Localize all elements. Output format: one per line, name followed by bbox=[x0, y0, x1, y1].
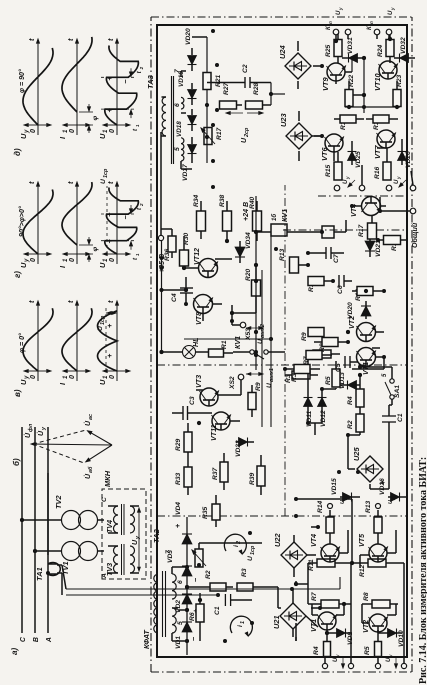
current transformer TA1 bbox=[35, 563, 60, 582]
resistor R4b bbox=[347, 381, 364, 407]
svg-text:А: А bbox=[46, 637, 53, 643]
diode VD3 bbox=[167, 550, 200, 582]
transistor VT4 bbox=[310, 534, 340, 562]
svg-text:R9: R9 bbox=[255, 382, 262, 391]
svg-text:5: 5 bbox=[174, 147, 181, 151]
voltage transformer TV2 bbox=[20, 495, 104, 530]
terminal X53 Uvyh2 bbox=[232, 305, 266, 344]
transistor VT4b bbox=[350, 197, 381, 218]
svg-text:R35: R35 bbox=[202, 506, 209, 519]
svg-text:R39: R39 bbox=[249, 472, 256, 485]
svg-text:R27: R27 bbox=[223, 82, 230, 95]
svg-text:C1: C1 bbox=[397, 413, 404, 422]
svg-text:1: 1 bbox=[135, 124, 140, 127]
resistor R5 vertical bbox=[364, 630, 382, 657]
svg-text:ТV4: ТV4 bbox=[106, 520, 114, 533]
capacitor C5 bbox=[335, 356, 358, 372]
svg-text:R33: R33 bbox=[175, 472, 182, 485]
svg-text:+: + bbox=[105, 76, 114, 81]
svg-text:R25: R25 bbox=[325, 44, 332, 57]
resistor R25 bbox=[325, 33, 342, 63]
MKN dashed block bbox=[102, 470, 146, 579]
svg-text:U: U bbox=[100, 179, 107, 184]
svg-text:R20: R20 bbox=[245, 268, 252, 281]
svg-text:2ср: 2ср bbox=[244, 127, 250, 138]
svg-text:VT2: VT2 bbox=[348, 316, 356, 329]
wire TA1 secondary pair down to TA2 bbox=[57, 565, 66, 595]
transistor VT10 bbox=[373, 61, 398, 91]
svg-text:0: 0 bbox=[68, 129, 76, 133]
resistor R14 bbox=[317, 500, 334, 544]
resistor R6 bbox=[187, 593, 204, 641]
svg-text:0: 0 bbox=[108, 129, 116, 133]
rectifier amplifier U23 bbox=[279, 111, 322, 161]
svg-text:U: U bbox=[97, 326, 104, 331]
Uy output arrow of MKN bbox=[130, 506, 141, 573]
transistor VT2 bbox=[362, 614, 388, 633]
resistor R36 bbox=[162, 229, 177, 261]
svg-text:R2: R2 bbox=[205, 570, 212, 579]
svg-text:R5: R5 bbox=[364, 646, 371, 655]
svg-text:0: 0 bbox=[68, 258, 76, 262]
resistor R20 bbox=[245, 268, 261, 305]
svg-text:U̇: U̇ bbox=[24, 432, 32, 438]
svg-text:U: U bbox=[98, 133, 107, 139]
terminal quad upper wires bbox=[334, 165, 416, 191]
diode VD13 bbox=[339, 372, 360, 390]
diode VD34 bbox=[235, 232, 252, 263]
svg-text:1ср: 1ср bbox=[103, 168, 109, 178]
svg-text:R34: R34 bbox=[193, 194, 200, 207]
svg-text:U: U bbox=[266, 383, 273, 388]
svg-text:ХS2: ХS2 bbox=[229, 376, 236, 390]
svg-text:R8: R8 bbox=[363, 592, 370, 601]
diode VD17 bbox=[182, 137, 197, 181]
svg-text:0: 0 bbox=[68, 375, 76, 379]
transistor VT9 bbox=[321, 63, 346, 91]
transistor VT11 bbox=[210, 412, 231, 441]
U2cp label with arrows bbox=[226, 112, 263, 144]
waveform group д) bbox=[13, 37, 144, 156]
svg-text:−: − bbox=[121, 214, 130, 219]
svg-text:I: I bbox=[58, 136, 67, 139]
resistor R3b bbox=[285, 365, 320, 383]
diode VD31 bbox=[342, 37, 364, 63]
svg-text:U: U bbox=[247, 556, 254, 561]
svg-text:В: В bbox=[33, 637, 40, 642]
svg-text:VD2: VD2 bbox=[175, 600, 182, 613]
svg-text:КV1: КV1 bbox=[234, 336, 242, 349]
resistor R30 bbox=[180, 232, 191, 266]
svg-text:U: U bbox=[336, 10, 342, 15]
svg-text:U: U bbox=[19, 262, 28, 268]
svg-text:0: 0 bbox=[29, 129, 37, 133]
svg-text:U: U bbox=[131, 539, 139, 545]
svg-text:VD20: VD20 bbox=[185, 28, 192, 45]
svg-text:VD3: VD3 bbox=[167, 550, 174, 563]
svg-text:+: + bbox=[105, 107, 114, 112]
svg-text:вых1: вых1 bbox=[269, 368, 275, 382]
terminal mid2 bbox=[376, 504, 381, 509]
svg-text:VD34: VD34 bbox=[245, 232, 252, 249]
resistor R1 variable bbox=[192, 543, 206, 567]
resistor R13 bbox=[256, 248, 308, 273]
svg-text:а): а) bbox=[10, 648, 19, 655]
svg-text:6: 6 bbox=[174, 103, 181, 107]
svg-text:R13: R13 bbox=[365, 500, 372, 513]
svg-text:п: п bbox=[369, 21, 374, 24]
svg-text:К: К bbox=[367, 25, 373, 30]
+35V terminal bbox=[158, 132, 166, 273]
svg-text:U: U bbox=[394, 179, 400, 184]
svg-text:R6: R6 bbox=[189, 612, 196, 621]
svg-text:R7: R7 bbox=[311, 592, 318, 601]
svg-text:1ср: 1ср bbox=[100, 315, 106, 325]
resistor R24 bbox=[377, 33, 394, 63]
svg-text:R40: R40 bbox=[249, 196, 256, 209]
transistor VT7 bbox=[373, 130, 396, 159]
svg-text:SA1: SA1 bbox=[394, 385, 401, 398]
resistor R9b bbox=[241, 382, 262, 417]
diode VD32 bbox=[394, 37, 415, 63]
resistor R18 bbox=[334, 115, 364, 130]
svg-text:VD19: VD19 bbox=[178, 71, 185, 87]
current loop i2 bbox=[224, 534, 256, 561]
svg-text:R15: R15 bbox=[325, 164, 332, 177]
svg-text:С: С bbox=[20, 636, 27, 642]
diode VD2 bbox=[175, 594, 200, 613]
svg-text:t: t bbox=[106, 181, 115, 184]
svg-text:0: 0 bbox=[29, 375, 37, 379]
wires phase detector out bbox=[207, 83, 285, 176]
svg-text:в): в) bbox=[13, 389, 22, 397]
vector diagram kite bbox=[24, 414, 112, 479]
resistor R7b bbox=[256, 351, 332, 366]
svg-text:R13: R13 bbox=[279, 248, 286, 261]
svg-text:R5: R5 bbox=[325, 376, 332, 385]
svg-text:φ: φ bbox=[92, 247, 99, 252]
resistor R10b bbox=[352, 287, 382, 302]
resistor R33 bbox=[175, 457, 192, 495]
svg-text:t: t bbox=[106, 38, 115, 41]
svg-text:2: 2 bbox=[139, 66, 144, 70]
wires middle-left stage bbox=[188, 369, 241, 495]
svg-text:VD15: VD15 bbox=[331, 478, 338, 495]
svg-text:U22: U22 bbox=[273, 533, 282, 547]
svg-text:ТV2: ТV2 bbox=[54, 495, 63, 509]
wires U25 cell bbox=[306, 352, 392, 489]
svg-text:VD21: VD21 bbox=[375, 240, 382, 257]
capacitor C1 bbox=[198, 594, 240, 615]
svg-text:VD32: VD32 bbox=[400, 37, 407, 54]
svg-text:t: t bbox=[133, 128, 139, 131]
resistor R15 bbox=[325, 152, 342, 186]
transformer TA3 bbox=[146, 69, 184, 164]
lamp HL bbox=[162, 338, 209, 359]
voltage transformer TV1 bbox=[33, 542, 104, 576]
resistor R7b bbox=[305, 350, 340, 359]
transistor VT3 bbox=[195, 375, 219, 406]
resistor R11 vertical bbox=[308, 559, 346, 571]
svg-text:ас: ас bbox=[88, 414, 94, 420]
capacitor C6 bbox=[333, 275, 352, 294]
svg-text:U: U bbox=[388, 10, 394, 15]
svg-text:R14: R14 bbox=[317, 500, 324, 513]
diode VD11 bbox=[304, 389, 314, 427]
resistor R16 bbox=[374, 148, 391, 186]
svg-text:U: U bbox=[257, 339, 264, 344]
resistor R4 bbox=[313, 630, 331, 657]
svg-text:C3: C3 bbox=[189, 396, 196, 405]
svg-text:аб: аб bbox=[87, 466, 94, 473]
svg-text:VT9: VT9 bbox=[321, 77, 330, 91]
resistor R2b bbox=[347, 407, 364, 435]
resistor R38 bbox=[219, 194, 232, 241]
svg-text:0: 0 bbox=[29, 258, 37, 262]
diode VD26 bbox=[398, 139, 413, 168]
wires VT8 VT12 stage bbox=[162, 239, 257, 325]
diode VD20 bbox=[185, 28, 197, 71]
svg-text:5: 5 bbox=[382, 373, 388, 377]
main block solid border bbox=[157, 25, 407, 657]
svg-text:R2: R2 bbox=[347, 420, 354, 429]
resistor R8 vertical bbox=[362, 592, 398, 608]
svg-text:t: t bbox=[27, 300, 36, 303]
svg-text:U: U bbox=[19, 379, 28, 385]
rectifier amplifier U24 bbox=[278, 41, 322, 89]
svg-text:ТА3: ТА3 bbox=[146, 74, 155, 89]
dash-dot divider X489 bbox=[318, 195, 407, 197]
svg-text:C7: C7 bbox=[333, 254, 340, 263]
resistor R12 vertical bbox=[358, 559, 396, 577]
resistor R7 (collector VT1) bbox=[310, 592, 348, 608]
resistor R3 vertical bbox=[237, 568, 262, 591]
resistor R8b bbox=[314, 338, 348, 353]
resistor R23 bbox=[393, 74, 403, 111]
section label a) bbox=[10, 648, 19, 655]
svg-text:R29: R29 bbox=[175, 438, 182, 451]
transistor VT6 bbox=[320, 134, 344, 161]
resistor R18b bbox=[378, 236, 407, 252]
svg-text:1б: 1б bbox=[271, 214, 278, 221]
waveform group в) bbox=[13, 300, 130, 397]
wires right channels bbox=[298, 37, 404, 188]
svg-text:U: U bbox=[98, 262, 107, 268]
wires middle lower section bbox=[332, 190, 386, 369]
svg-text:6: 6 bbox=[177, 580, 184, 584]
svg-text:0: 0 bbox=[108, 258, 116, 262]
svg-text:t: t bbox=[106, 300, 115, 303]
svg-text:R24: R24 bbox=[377, 44, 384, 57]
svg-text:U: U bbox=[98, 379, 107, 385]
diode VD15 bbox=[331, 478, 360, 504]
resistor R35 bbox=[202, 495, 220, 527]
Uy terminal pair 2 bbox=[375, 633, 406, 669]
svg-text:U23: U23 bbox=[279, 113, 288, 127]
diode VD1 bbox=[175, 622, 198, 649]
svg-text:0: 0 bbox=[108, 375, 116, 379]
svg-text:1ср: 1ср bbox=[250, 545, 256, 555]
output terminals Kp upper bbox=[326, 21, 351, 39]
transistor VT8 bbox=[194, 295, 213, 326]
rectifier amplifier U21 bbox=[272, 589, 318, 637]
diode VD25 bbox=[348, 141, 363, 168]
svg-text:t: t bbox=[66, 300, 75, 303]
waveform group г) bbox=[13, 168, 144, 278]
diode VD33 bbox=[235, 438, 254, 458]
figure caption bbox=[418, 457, 427, 684]
wires to diamonds U21 U22 bbox=[187, 527, 320, 641]
switch SA1 bbox=[382, 371, 401, 405]
svg-text:R3: R3 bbox=[291, 373, 298, 382]
svg-text:1: 1 bbox=[135, 253, 140, 256]
svg-text:t: t bbox=[66, 181, 75, 184]
resistor R39 bbox=[249, 455, 265, 495]
wire uvyh2 bus bbox=[184, 337, 273, 341]
resistor R9 bbox=[256, 328, 352, 342]
svg-text:б): б) bbox=[12, 458, 21, 466]
svg-text:i: i bbox=[233, 545, 240, 547]
rectifier amplifier U25 bbox=[352, 447, 383, 482]
resistor R17 variable bbox=[201, 127, 223, 144]
svg-text:VT4: VT4 bbox=[310, 534, 318, 547]
svg-text:C6: C6 bbox=[337, 285, 344, 294]
svg-text:VD12: VD12 bbox=[320, 410, 327, 427]
svg-text:t: t bbox=[27, 181, 36, 184]
svg-text:C2: C2 bbox=[242, 64, 249, 73]
svg-text:R9: R9 bbox=[301, 332, 308, 341]
svg-text:−: − bbox=[189, 636, 198, 641]
diode VD16 bbox=[379, 478, 406, 504]
wires channel VT1 VT2 bbox=[294, 499, 404, 641]
svg-text:VD17: VD17 bbox=[182, 164, 189, 181]
svg-text:C5: C5 bbox=[335, 363, 342, 372]
svg-text:R4: R4 bbox=[347, 396, 354, 405]
svg-text:90°>φ>0°: 90°>φ>0° bbox=[18, 206, 26, 237]
phase bus B bbox=[33, 427, 40, 642]
resistor R37 bbox=[212, 453, 228, 490]
transistor VT1m bbox=[348, 316, 376, 342]
svg-text:+24 В: +24 В bbox=[242, 202, 250, 221]
svg-text:R17: R17 bbox=[358, 224, 365, 237]
capacitor C7 bbox=[308, 247, 344, 263]
capacitor C4 bbox=[171, 277, 193, 304]
transistor VT5 bbox=[358, 533, 388, 562]
svg-text:U: U bbox=[340, 500, 346, 504]
rectifier output rail bbox=[192, 37, 209, 163]
svg-text:+: + bbox=[378, 480, 387, 485]
phase bus A bbox=[46, 427, 53, 643]
svg-text:+: + bbox=[173, 523, 182, 528]
diode VD19 bbox=[178, 71, 197, 105]
BIAT enclosure dash-dot frame bbox=[142, 17, 412, 672]
resistor R5b bbox=[325, 361, 340, 389]
resistor R11b bbox=[256, 277, 333, 293]
svg-text:U21: U21 bbox=[272, 615, 281, 629]
svg-text:R38: R38 bbox=[219, 194, 226, 207]
diode VD12 bbox=[318, 389, 328, 427]
svg-text:t: t bbox=[137, 207, 143, 210]
resistor R19 bbox=[366, 115, 398, 130]
svg-text:R21: R21 bbox=[215, 74, 222, 87]
transformer TA2 bbox=[152, 528, 184, 641]
svg-text:VT1: VT1 bbox=[310, 619, 318, 632]
svg-text:R37: R37 bbox=[212, 467, 219, 480]
svg-text:t: t bbox=[66, 38, 75, 41]
svg-text:вых2: вых2 bbox=[260, 324, 266, 338]
svg-text:фл: фл bbox=[27, 423, 34, 432]
diode VD20b bbox=[347, 301, 371, 319]
svg-text:i: i bbox=[237, 625, 244, 627]
svg-text:t: t bbox=[27, 38, 36, 41]
wires TA2 secondary to rectifier bbox=[172, 565, 189, 643]
svg-text:С: С bbox=[101, 497, 108, 502]
svg-text:U25: U25 bbox=[352, 447, 361, 461]
svg-text:C1: C1 bbox=[214, 606, 221, 615]
svg-text:МКН: МКН bbox=[103, 470, 112, 487]
diode VD18 bbox=[176, 109, 197, 137]
svg-text:φ = 0°: φ = 0° bbox=[18, 333, 26, 353]
svg-text:U: U bbox=[333, 657, 339, 662]
svg-text:КV1: КV1 bbox=[281, 209, 289, 222]
svg-text:Общий: Общий bbox=[411, 222, 419, 248]
svg-text:R1: R1 bbox=[221, 340, 228, 349]
resistor R29 bbox=[175, 423, 192, 457]
svg-text:VD31: VD31 bbox=[347, 37, 354, 54]
svg-text:д): д) bbox=[13, 148, 22, 156]
plus mark U25 bbox=[378, 480, 387, 485]
diode VD21 bbox=[365, 235, 382, 257]
svg-text:VT5: VT5 bbox=[358, 533, 366, 547]
relay box2 bbox=[322, 220, 346, 238]
svg-text:VD18: VD18 bbox=[176, 121, 183, 137]
svg-text:t: t bbox=[137, 70, 143, 73]
svg-text:U: U bbox=[388, 500, 394, 504]
Uy labels outside frame bbox=[336, 7, 395, 15]
terminal mid1 bbox=[328, 504, 333, 509]
+24V supply rail bbox=[242, 196, 258, 370]
svg-text:R16: R16 bbox=[374, 166, 381, 179]
relay contact KV1 bbox=[233, 336, 285, 359]
svg-text:U: U bbox=[386, 657, 392, 662]
svg-text:C4: C4 bbox=[171, 293, 178, 302]
svg-text:2: 2 bbox=[139, 203, 144, 207]
capacitor C3 bbox=[172, 396, 199, 420]
transistor VT1 bbox=[310, 612, 337, 632]
resistor R2 vertical bbox=[185, 570, 233, 591]
resistor R21 bbox=[203, 73, 222, 90]
diode VD9 bbox=[334, 629, 354, 646]
output terminals Kp lower bbox=[367, 21, 392, 39]
resistor R22 bbox=[345, 74, 355, 111]
svg-text:U̇: U̇ bbox=[84, 420, 92, 426]
capacitor C2 bbox=[207, 64, 271, 88]
winding TV4 bbox=[101, 497, 135, 535]
svg-text:U24: U24 bbox=[278, 45, 287, 59]
capacitor C1b bbox=[382, 405, 404, 430]
svg-text:п: п bbox=[328, 21, 333, 24]
resistor R13b bbox=[365, 500, 382, 544]
wires VT4 VT5 bbox=[294, 497, 396, 568]
current loop i1 bbox=[230, 616, 252, 636]
phase bus C bbox=[20, 427, 27, 642]
internal partition dash-dot lines bbox=[157, 185, 407, 516]
resistor R1 bbox=[208, 340, 233, 357]
resistor R34 bbox=[193, 194, 206, 239]
svg-text:U̇: U̇ bbox=[37, 430, 45, 436]
svg-text:R3: R3 bbox=[241, 568, 248, 577]
supply rail 35V bbox=[159, 236, 163, 354]
